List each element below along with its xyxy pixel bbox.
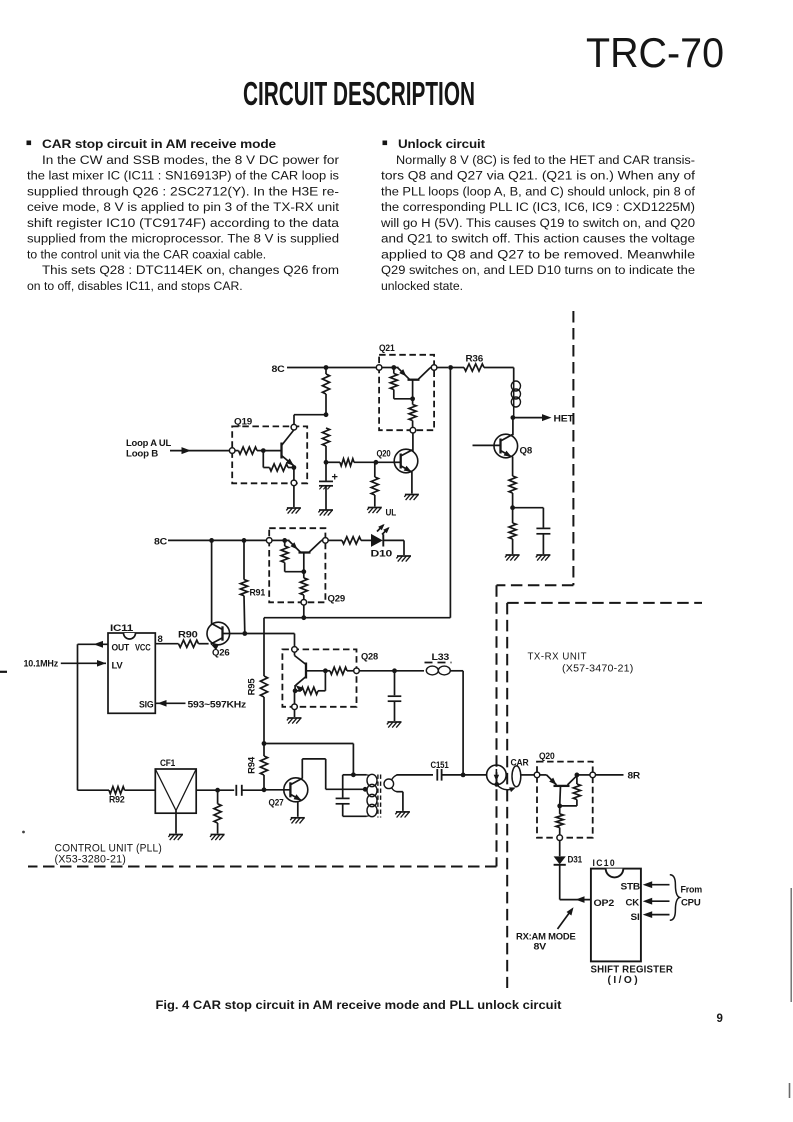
right column paragraph: Unlock circuit <box>380 137 696 293</box>
pin (Q29 collector) <box>323 538 342 544</box>
svg-text:ceive mode, 8 V is applied to: ceive mode, 8 V is applied to pin 3 of t… <box>27 200 340 214</box>
figure caption <box>156 999 562 1012</box>
resistor (Q20 base series) <box>326 459 376 466</box>
svg-text:9: 9 <box>717 1013 723 1025</box>
svg-text:R36: R36 <box>466 354 484 365</box>
junction + wire to Q19 collector <box>294 412 328 424</box>
resistor (Q19 base-emitter) <box>263 451 294 472</box>
transformer core <box>378 775 381 818</box>
pin (Q28 base in) <box>354 668 360 674</box>
resistor (Q21 base series) <box>390 368 412 399</box>
pin arrow STB <box>643 881 670 888</box>
svg-text:Q8: Q8 <box>520 446 533 457</box>
svg-text:IC11: IC11 <box>110 623 134 634</box>
junction (Q28 base) <box>323 668 328 673</box>
resistor (Q21 base-emitter) <box>409 399 416 428</box>
svg-text:10.1MHz: 10.1MHz <box>24 659 59 669</box>
pin (Q21 in) <box>376 365 393 371</box>
scan artifact right edge <box>790 888 792 1098</box>
svg-text:Q19: Q19 <box>234 417 252 428</box>
TX-RX unit boundary dashed line <box>507 603 702 988</box>
svg-text:R92: R92 <box>109 795 125 806</box>
transistor Q29 symbol (PNP) <box>285 540 323 552</box>
transistor Q29 dashed box <box>269 528 345 604</box>
wire (Q27 emitter) <box>297 801 299 817</box>
page title TRC-70 <box>586 29 724 76</box>
wire (Q27 collector to tank tap) <box>302 759 364 789</box>
svg-text:LV: LV <box>112 661 123 671</box>
svg-text:Q29: Q29 <box>328 594 346 605</box>
svg-text:CIRCUIT DESCRIPTION: CIRCUIT DESCRIPTION <box>243 75 475 112</box>
transformer T secondary <box>384 775 433 811</box>
svg-text:supplied from the microprocess: supplied from the microprocessor. The 8 … <box>27 232 339 246</box>
ground (Q20 upper) <box>404 495 419 501</box>
transistor Q19 dashed box <box>232 417 307 484</box>
junction (tank top) <box>351 772 356 777</box>
svg-text:D31: D31 <box>568 855 583 866</box>
ground (CF1 load) <box>210 835 225 841</box>
svg-text:Loop A UL: Loop A UL <box>126 438 172 448</box>
ground + node UL <box>367 508 396 519</box>
junction (Q19 emitter) <box>292 465 297 480</box>
ground (secondary) <box>395 812 410 818</box>
ground (L33 node cap) <box>387 722 402 728</box>
junction (HET node) <box>511 415 516 420</box>
svg-text:R90: R90 <box>178 630 198 641</box>
page edge tick <box>0 671 7 673</box>
svg-text:+: + <box>332 472 338 484</box>
capacitor (tank) <box>336 775 367 817</box>
wire (L33 to C151 node) <box>462 671 464 775</box>
svg-text:to the control unit via the CA: to the control unit via the CAR coaxial … <box>27 247 266 261</box>
node 10.1MHz input <box>24 659 107 669</box>
svg-text:SIG: SIG <box>139 700 154 710</box>
svg-text:(X53-3280-21): (X53-3280-21) <box>55 854 127 866</box>
svg-text:Q28: Q28 <box>361 652 378 663</box>
coax connector CAR <box>487 758 535 793</box>
junction (CF1 out) <box>196 788 234 793</box>
resistor (Q29 base-emitter) <box>300 572 307 600</box>
svg-text:Normally 8 V (8C) is fed to th: Normally 8 V (8C) is fed to the HET and … <box>396 153 695 167</box>
heading CIRCUIT DESCRIPTION <box>243 75 475 112</box>
pin (Q20 out right) <box>590 772 624 778</box>
junction (R95/R94 node) <box>262 741 267 746</box>
pin (Q19 collector) <box>291 424 297 430</box>
svg-text:R94: R94 <box>247 756 258 774</box>
wire (D31 to OP2) <box>560 896 591 903</box>
junction (L33 node) <box>392 668 397 673</box>
junction (R36 node) <box>448 365 453 370</box>
pin (Q20 emitter in) <box>534 772 546 778</box>
wire (IC11 OUT to CF1 via R92) <box>78 641 110 790</box>
inductor L33 <box>425 652 464 675</box>
junction (Q21 base) <box>410 380 415 401</box>
pin (Q19 base input) <box>229 448 235 454</box>
pin (Q21 collector to rail) <box>431 365 448 371</box>
svg-text:UL: UL <box>386 508 397 519</box>
resistor R90 <box>155 630 208 648</box>
diode D31 <box>554 855 583 900</box>
svg-text:and Q21 to switch off. This a: and Q21 to switch off. This action cause… <box>381 232 695 246</box>
ground (electrolytic capacitor) <box>318 510 333 516</box>
svg-text:Q21: Q21 <box>379 343 395 354</box>
speck <box>22 831 25 834</box>
svg-text:D10: D10 <box>371 549 393 560</box>
resistor (D10 series) <box>342 537 371 544</box>
svg-text:IC10: IC10 <box>593 858 617 869</box>
resistor (Q29 base series) <box>281 540 304 571</box>
label pins IC11 <box>112 643 154 710</box>
svg-text:From: From <box>681 885 703 895</box>
transistor Q20 (upper) <box>377 449 418 473</box>
svg-text:TRC-70: TRC-70 <box>586 29 724 76</box>
junction (Q20 base node) <box>324 460 329 465</box>
svg-text:CF1: CF1 <box>160 758 176 769</box>
svg-text:will go H (5V). This causes Q: will go H (5V). This causes Q19 to switc… <box>380 216 695 230</box>
node Loop A UL / Loop B input <box>126 438 229 459</box>
resistor R95 <box>247 676 268 744</box>
pin (Q20 out bottom) <box>557 835 563 856</box>
svg-text:Q26: Q26 <box>212 648 230 659</box>
svg-text:on to off, disables IC11, and: on to off, disables IC11, and stops CAR. <box>27 279 243 293</box>
resistor R92 <box>109 787 155 806</box>
svg-text:Q20: Q20 <box>377 449 391 460</box>
svg-text:CK: CK <box>626 898 640 909</box>
node HET output arrow <box>513 414 574 425</box>
resistor R91 <box>240 540 265 633</box>
resistor (8C to Q19 collector) <box>322 368 329 415</box>
svg-text:CAR stop circuit in AM receive: CAR stop circuit in AM receive mode <box>42 137 276 151</box>
transistor Q20 symbol (PNP) <box>547 775 578 786</box>
svg-text:Q29 switches on, and LED D10 t: Q29 switches on, and LED D10 turns on to… <box>381 263 695 277</box>
label RX:AM MODE 8V <box>516 907 576 951</box>
svg-text:L33: L33 <box>432 652 450 663</box>
pin (Q19 emitter) <box>291 480 297 507</box>
resistor (Q28 base-emitter) <box>295 671 325 695</box>
label SHIFT REGISTER (I/O) <box>591 965 674 987</box>
ground (Q27) <box>290 818 305 824</box>
svg-text:8C: 8C <box>272 364 285 375</box>
resistor (Q8 emitter lower) <box>509 508 516 555</box>
wire (tank supply) <box>264 744 353 773</box>
resistor (Q20 internal right) <box>560 775 581 806</box>
svg-text:C151: C151 <box>431 760 450 771</box>
wire (Q26 collector) <box>211 540 213 624</box>
junction (Q29 emitter node) <box>282 538 287 543</box>
capacitor C151 <box>431 760 464 781</box>
control unit (PLL) boundary dashed line <box>28 311 573 867</box>
junction (Q28 emitter) <box>293 688 298 704</box>
pin arrow CK <box>643 898 670 905</box>
svg-text:R95: R95 <box>247 678 258 696</box>
node 8C (Q29 rail) <box>154 537 266 548</box>
junction (Q26 collector at rail) <box>209 538 214 543</box>
transistor Q8 <box>473 418 533 458</box>
ground (Q19) <box>286 508 301 514</box>
resistor R36 <box>451 354 514 372</box>
pin (Q21 out) <box>410 427 416 451</box>
svg-text:supplied through Q26 : 2SC2712: supplied through Q26 : 2SC2712(Y). In th… <box>27 184 339 198</box>
svg-text:Q20: Q20 <box>539 751 555 762</box>
inductor (HET feed) <box>511 368 520 418</box>
label CONTROL UNIT (PLL) <box>55 843 163 866</box>
page number <box>717 1013 723 1025</box>
svg-text:the last mixer IC (IC11 : SN16: the last mixer IC (IC11 : SN16913P) of t… <box>27 169 339 183</box>
capacitor (Q8 bypass) <box>513 508 551 555</box>
IC U IC11 box <box>108 623 163 713</box>
wire (Q20 upper emitter) <box>411 472 413 494</box>
label TX-RX UNIT <box>528 651 634 675</box>
svg-text:OUT: OUT <box>112 643 130 653</box>
pin arrow SI <box>643 911 670 918</box>
capacitor (Q27 coupling) <box>236 785 262 796</box>
svg-text:CPU: CPU <box>681 898 701 908</box>
filter CF1 <box>155 758 196 834</box>
node 8C (top rail) <box>272 364 377 375</box>
electrolytic capacitor (+) <box>319 462 338 509</box>
ground (Q8 bypass cap) <box>536 555 551 561</box>
svg-text:8C: 8C <box>154 537 167 548</box>
pin (Q29 out) <box>301 600 307 618</box>
svg-text:OP2: OP2 <box>594 898 615 909</box>
junction (C151/L33 node) <box>461 773 487 778</box>
svg-text:shift register IC10 (TC9174F): shift register IC10 (TC9174F) according … <box>27 216 339 230</box>
label pins IC10 <box>594 882 641 924</box>
transistor Q21 dashed box <box>379 343 434 430</box>
svg-text:unlocked state.: unlocked state. <box>381 279 463 293</box>
transistor Q26 <box>207 622 230 658</box>
svg-text:593~597KHz: 593~597KHz <box>188 700 247 710</box>
svg-text:STB: STB <box>621 882 641 893</box>
svg-text:HET: HET <box>554 414 574 425</box>
svg-text:( I / O ): ( I / O ) <box>608 975 638 986</box>
svg-text:RX:AM MODE: RX:AM MODE <box>516 932 576 942</box>
svg-text:SI: SI <box>631 912 640 923</box>
svg-text:Loop B: Loop B <box>126 449 159 459</box>
svg-text:TX-RX UNIT: TX-RX UNIT <box>528 651 588 663</box>
resistor (UL pulldown) <box>371 462 378 506</box>
resistor (Q19 collector lower) <box>322 428 329 462</box>
junction (Q19 base) <box>261 448 282 453</box>
junction (Q8 emitter divider) <box>510 505 515 510</box>
transistor Q28 dashed box <box>282 649 378 706</box>
junction (Q20 collector node) <box>575 773 590 778</box>
junction (Q27 base node) <box>262 787 267 792</box>
svg-text:CAR: CAR <box>511 758 529 769</box>
svg-text:Q27: Q27 <box>269 798 284 809</box>
wire (Q28 base node to L33) <box>359 670 424 672</box>
resistor (Q19 base) <box>235 447 263 454</box>
svg-text:8: 8 <box>158 634 163 645</box>
svg-text:the corresponding PLL IC (IC3,: the corresponding PLL IC (IC3, IC6, IC9 … <box>381 200 695 214</box>
svg-text:Unlock circuit: Unlock circuit <box>398 137 485 151</box>
ground (Q8 resistor) <box>505 555 520 561</box>
junction (Q21 emitter node) <box>391 365 396 370</box>
transformer T primary <box>353 774 377 816</box>
node 8R <box>628 771 641 782</box>
transistor Q28 symbol <box>295 656 326 693</box>
svg-text:tors Q8 and Q27 via Q21. (Q21: tors Q8 and Q27 via Q21. (Q21 is on.) Wh… <box>381 169 696 183</box>
junction (tank tap) <box>363 787 368 792</box>
svg-text:SHIFT REGISTER: SHIFT REGISTER <box>591 965 674 976</box>
node 593~597KHz into SIG <box>155 700 246 710</box>
transistor Q20 dashed box <box>537 751 593 838</box>
pin (Q29 in) <box>266 538 284 544</box>
svg-text:(X57-3470-21): (X57-3470-21) <box>562 664 634 675</box>
resistor (Q20 base lower) <box>556 806 563 835</box>
svg-text:8R: 8R <box>628 771 641 782</box>
transistor Q27 <box>264 778 308 809</box>
resistor (CF1 load) <box>214 790 221 833</box>
transistor Q19 symbol <box>282 430 294 466</box>
LED D10 <box>371 524 405 560</box>
junction (Q29 to unlock net) <box>301 615 306 620</box>
junction (Q20 base) <box>374 460 395 465</box>
svg-text:In the CW and SSB modes, the 8: In the CW and SSB modes, the 8 V DC powe… <box>42 153 339 167</box>
svg-text:the PLL loops (loop A, B, and: the PLL loops (loop A, B, and C) should … <box>381 184 696 198</box>
junction (Q29 base) <box>301 553 306 575</box>
pin (Q28 emitter out) <box>292 704 298 717</box>
ground (Q28) <box>287 718 302 724</box>
IC U IC10 box <box>591 858 641 961</box>
junction (R91 at rail) <box>242 538 247 543</box>
junction (Q26 base node) <box>229 631 247 636</box>
svg-text:applied to Q8 and Q27 to be re: applied to Q8 and Q27 to be removed. Mea… <box>381 247 695 261</box>
left column paragraph: CAR stop circuit in AM receive mode <box>27 137 340 293</box>
resistor (Q8 emitter) <box>509 457 516 508</box>
ground (D10) <box>396 556 411 562</box>
transistor Q21 symbol (PNP) <box>394 368 432 380</box>
wire (unlock net: R36 junction down and left) <box>264 368 450 677</box>
svg-text:VCC: VCC <box>135 643 151 653</box>
svg-text:R91: R91 <box>250 588 266 599</box>
pin (Q28 collector) <box>292 647 298 656</box>
resistor R94 <box>247 744 268 789</box>
junction (Q20 base node) <box>557 786 562 808</box>
wire (Q26 base to Q28) <box>245 634 295 647</box>
capacitor (L33 node bypass) <box>388 671 402 721</box>
svg-text:8V: 8V <box>534 942 547 952</box>
resistor (Q28 base series) <box>325 667 353 674</box>
svg-text:This sets Q28 : DTC114EK on, c: This sets Q28 : DTC114EK on, changes Q26… <box>42 263 339 277</box>
junction (8C rail) <box>324 365 329 370</box>
ground (CF1) <box>168 835 183 841</box>
svg-text:Fig. 4 CAR stop circuit in AM: Fig. 4 CAR stop circuit in AM receive mo… <box>156 999 562 1012</box>
brace From CPU <box>670 875 702 921</box>
